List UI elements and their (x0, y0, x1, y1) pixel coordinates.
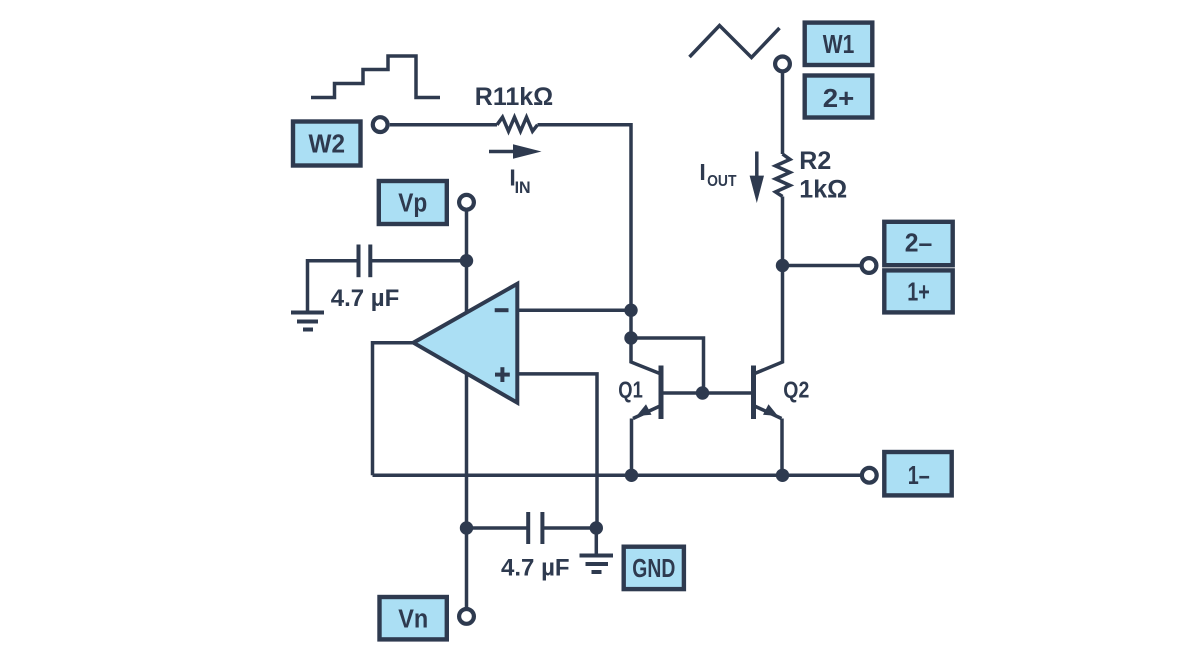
svg-text:OUT: OUT (707, 173, 737, 190)
wire R2 to output node (781, 197, 785, 266)
terminal Vn (459, 609, 474, 624)
label box Vp (379, 181, 447, 224)
ground symbol (C2) (580, 528, 614, 572)
junction R2 / 2- output (776, 259, 789, 272)
terminal Vp (459, 195, 474, 210)
wire R1 to inverting input node (538, 125, 632, 310)
ground symbol (C1) (291, 313, 324, 330)
svg-text:R11kΩ: R11kΩ (475, 83, 553, 111)
label box GND (624, 547, 684, 589)
current arrow IOUT (750, 152, 764, 204)
label IIN (509, 165, 530, 198)
current arrow IIN (489, 144, 542, 159)
label box Vn (380, 597, 447, 639)
terminal 1- (862, 468, 877, 483)
staircase waveform icon (W2 stimulus) (311, 56, 440, 98)
label box W2 (293, 122, 361, 166)
svg-text:Vp: Vp (398, 190, 427, 218)
op-amp minus sign (495, 308, 509, 312)
wire Vp supply rail (vertical through op-amp) (465, 211, 469, 609)
wire W2 terminal to R1 (390, 123, 497, 127)
svg-text:W2: W2 (309, 131, 346, 159)
terminal 2-/1+ (862, 258, 877, 273)
svg-text:IN: IN (515, 178, 531, 197)
transistor Q2 collector (754, 266, 783, 375)
capacitor C2 left wire (467, 526, 529, 530)
capacitor C1 plates (359, 245, 371, 278)
label box W1 (805, 23, 873, 65)
op-amp plus sign (495, 367, 510, 382)
label box 2+ (805, 76, 873, 118)
svg-text:GND: GND (632, 555, 675, 583)
junction Vp/C1 (460, 254, 473, 267)
svg-text:Vn: Vn (398, 606, 428, 634)
wire bottom rail (1- net) (373, 474, 862, 478)
junction C2 / ground (590, 521, 603, 534)
capacitor C2 right wire (542, 526, 596, 530)
svg-text:1–: 1– (908, 462, 930, 490)
capacitor C1 right wire (370, 259, 466, 263)
transistor Q2 emitter (755, 404, 783, 475)
svg-text:Q2: Q2 (783, 376, 809, 402)
wire base loop (collector-base tie to bases) (631, 338, 704, 393)
capacitor C1 4.7uF left wire (308, 261, 359, 311)
svg-text:1kΩ: 1kΩ (799, 176, 847, 204)
label box 1+ (884, 270, 952, 312)
label box 1- (884, 452, 951, 495)
svg-text:2–: 2– (905, 230, 933, 258)
junction bases (696, 386, 709, 399)
wire noninverting input (517, 374, 597, 528)
svg-text:W1: W1 (823, 31, 855, 59)
wire output node to 2- terminal (783, 264, 861, 268)
junction collector/base tie (624, 331, 637, 344)
transistor Q2 base bar (751, 366, 756, 420)
svg-text:1+: 1+ (907, 279, 930, 307)
capacitor C2 plates (528, 512, 542, 544)
resistor R1 (497, 117, 538, 131)
wire inverting node to base node (629, 310, 633, 338)
junction Q2 emitter / rail (776, 469, 789, 482)
wire base interconnect Q1-Q2 (661, 391, 754, 395)
junction Q1 emitter / rail (625, 469, 638, 482)
label IOUT (699, 159, 736, 190)
terminal W1 (775, 57, 790, 72)
svg-text:4.7 µF: 4.7 µF (501, 555, 570, 582)
op-amp U1 (413, 284, 517, 403)
transistor Q1 emitter (632, 404, 661, 475)
label box 2- (884, 222, 952, 265)
svg-text:I: I (699, 159, 705, 185)
wire inverting input (517, 308, 631, 312)
svg-text:4.7 µF: 4.7 µF (331, 285, 400, 312)
wire W1 to R2 (781, 72, 785, 154)
transistor Q1 collector (631, 338, 661, 374)
transistor Q1 base bar (659, 366, 664, 420)
svg-text:Q1: Q1 (618, 376, 643, 402)
wire op-amp output feedback (373, 343, 414, 476)
junction inverting node (624, 304, 637, 317)
terminal W2 (373, 117, 388, 132)
triangle waveform icon (W1 stimulus) (690, 26, 780, 58)
svg-text:R2: R2 (799, 147, 831, 175)
svg-text:2+: 2+ (823, 85, 855, 113)
resistor R2 (776, 154, 791, 197)
junction Vn / C2 (460, 521, 473, 534)
